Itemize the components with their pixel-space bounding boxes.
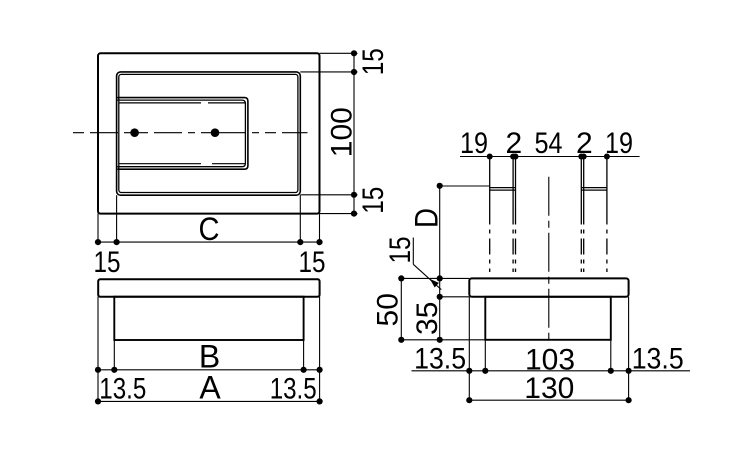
svg-text:19: 19 (460, 127, 488, 160)
svg-text:100: 100 (326, 107, 359, 157)
dimension line 13.5/103/13.5 (412, 370, 691, 372)
svg-text:15: 15 (357, 187, 390, 214)
dimension line D/35 (439, 186, 441, 340)
svg-text:130: 130 (524, 372, 574, 405)
vertical dimension line 15/100/15 (353, 53, 355, 213)
tongue second line (118, 100, 246, 167)
svg-text:13.5: 13.5 (270, 373, 317, 406)
inner boss inner line (119, 74, 298, 192)
side body (485, 297, 611, 340)
tongue outer line (118, 98, 248, 170)
outer plate outline (98, 53, 320, 213)
inner boss outer line (117, 72, 301, 195)
left prong top edges (490, 187, 516, 189)
svg-text:13.5: 13.5 (99, 373, 146, 406)
extension lines front (97, 297, 99, 402)
top dimension line 19/2/54/2/19 (460, 156, 640, 158)
tongue hidden dashed line top (119, 102, 245, 104)
centerline horizontal (73, 132, 308, 134)
svg-text:54: 54 (535, 127, 563, 160)
right side dim extension lines of top view (320, 52, 358, 54)
extension lines bottom of side view (468, 297, 470, 400)
front body (114, 297, 303, 340)
svg-text:15: 15 (357, 48, 390, 75)
svg-text:50: 50 (372, 293, 405, 326)
right prong wall pair (580, 157, 582, 209)
svg-text:15: 15 (94, 246, 121, 279)
svg-text:15: 15 (299, 246, 326, 279)
front cap bar (98, 279, 319, 297)
dimension line 130 (469, 399, 628, 401)
leader line for 15 (412, 238, 414, 265)
dimension line B / 13.5 (98, 369, 320, 371)
hole left (130, 128, 139, 137)
extension line D top (440, 185, 490, 187)
svg-text:D: D (408, 208, 444, 228)
extension line cap top left (401, 277, 469, 279)
left prong outer line (489, 157, 491, 209)
svg-text:35: 35 (411, 302, 444, 335)
tongue hidden dashed line bottom (119, 163, 245, 165)
right prong top edges (581, 187, 607, 189)
extension line body bottom left (401, 339, 485, 341)
right prong outer line (606, 157, 608, 209)
side cap bar (469, 278, 628, 296)
svg-text:19: 19 (605, 127, 633, 160)
dimension C extension lines (97, 214, 99, 243)
svg-text:13.5: 13.5 (414, 343, 466, 376)
svg-text:2: 2 (576, 127, 593, 160)
svg-text:2: 2 (506, 127, 523, 160)
hole right (211, 128, 220, 137)
vertical centerline (548, 177, 550, 344)
dimension line 50 (400, 278, 402, 339)
svg-text:A: A (199, 369, 221, 405)
left prong wall pair (512, 157, 514, 209)
svg-text:15: 15 (384, 237, 417, 264)
dimension line A (98, 400, 320, 402)
dimension line C (98, 241, 320, 243)
svg-text:C: C (199, 211, 220, 247)
svg-text:13.5: 13.5 (632, 343, 684, 376)
extension line cap bottom left (440, 296, 470, 298)
leader arrowhead (430, 279, 439, 288)
